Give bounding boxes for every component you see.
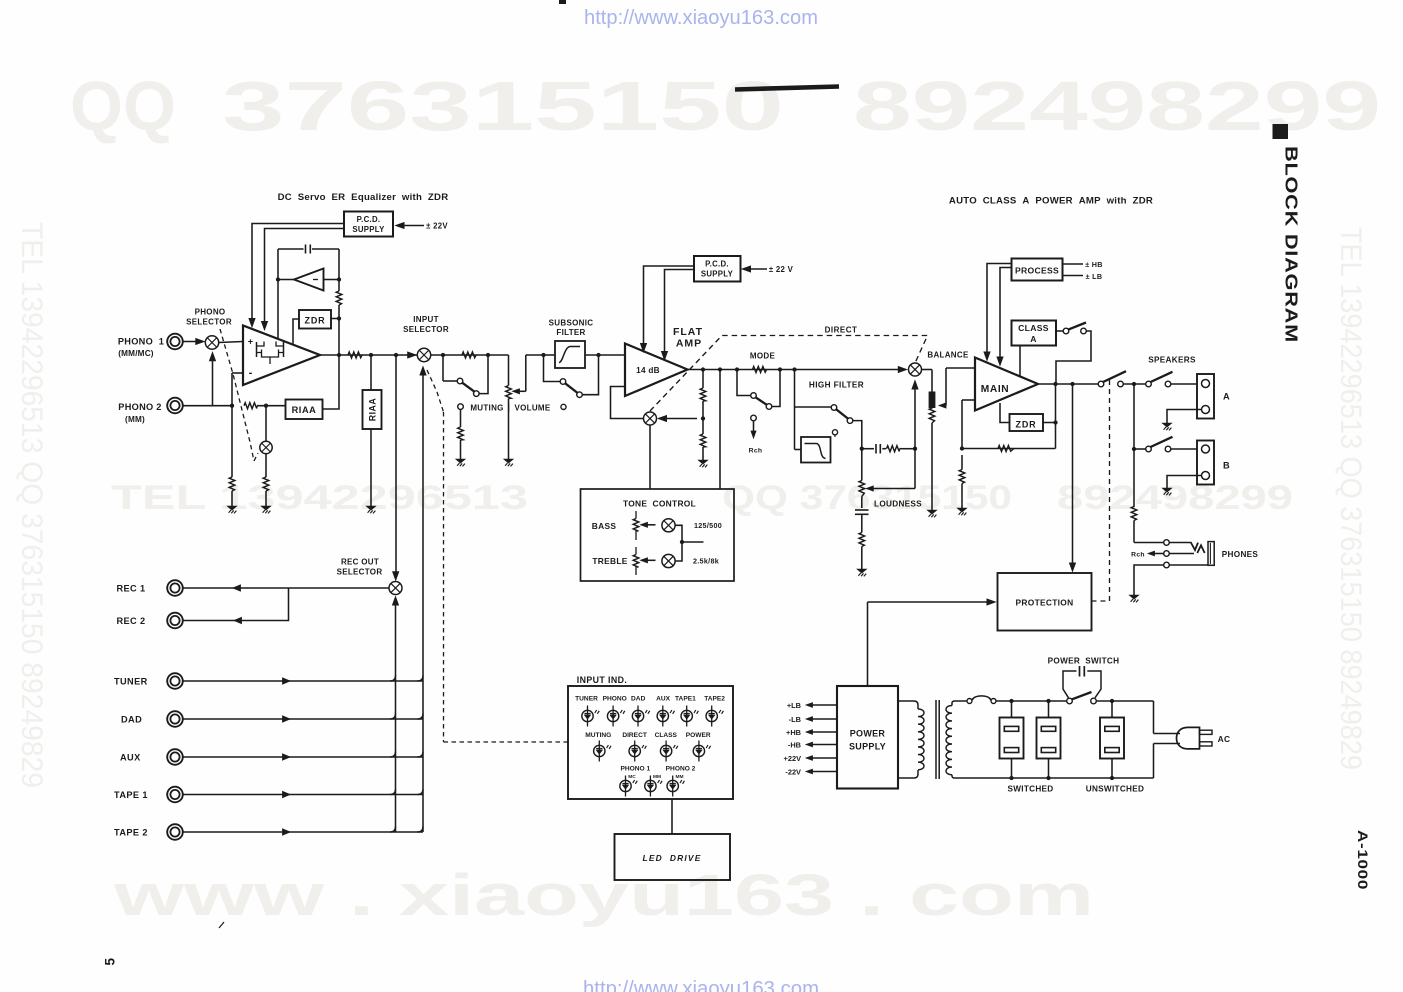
wire input selector output with resistor	[431, 352, 509, 358]
svg-text:SUPPLY: SUPPLY	[701, 270, 734, 279]
selector switch MC/MM gain	[260, 406, 272, 506]
svg-text:PHONO 2: PHONO 2	[118, 402, 161, 412]
wire phono2 to selector	[182, 352, 215, 405]
AC cord	[1154, 734, 1181, 744]
label MUTING / VOLUME	[470, 403, 551, 413]
svg-text:+22V: +22V	[784, 754, 802, 763]
selector switch treble	[662, 554, 675, 567]
svg-text:REC OUT: REC OUT	[341, 558, 379, 567]
svg-text:CLASS: CLASS	[655, 732, 678, 739]
PROTECTION box	[998, 573, 1092, 631]
svg-text:SUBSONIC: SUBSONIC	[549, 319, 594, 328]
ZDR box 2	[1010, 414, 1044, 431]
dashed link phono selector to MC/MM switch	[220, 329, 258, 461]
capacitor and resistor to balance bus	[862, 444, 917, 454]
op-amp U3 FLAT AMP 14dB	[625, 344, 688, 397]
svg-text:MM: MM	[676, 774, 684, 780]
LED row 1	[582, 706, 724, 727]
svg-text:(MM/MC): (MM/MC)	[118, 349, 154, 358]
wire TAPE 1 to buses	[182, 789, 423, 798]
dashed input selector to input indicator	[427, 370, 568, 742]
selector switch tone defeat	[644, 412, 698, 425]
resistor R to ground left	[229, 406, 235, 506]
svg-text:TEL 13942296513: TEL 13942296513	[111, 479, 528, 517]
svg-text:TAPE1: TAPE1	[675, 696, 696, 703]
svg-text:PHONES: PHONES	[1222, 550, 1259, 559]
svg-text:TAPE 2: TAPE 2	[114, 828, 148, 838]
svg-text:HIGH FILTER: HIGH FILTER	[809, 381, 864, 390]
mode Rch contact	[749, 415, 763, 454]
svg-text:FLAT: FLAT	[673, 326, 703, 338]
RIAA box vertical	[363, 390, 382, 429]
svg-text:DAD: DAD	[121, 715, 142, 725]
svg-text:AMP: AMP	[676, 338, 702, 350]
wire flat amp output to balance	[688, 366, 907, 372]
LED row 2	[594, 741, 711, 762]
tick mark	[219, 922, 224, 928]
wire RIAA vertical to ground	[370, 429, 372, 506]
svg-text:-: -	[249, 367, 253, 379]
wire TAPE 2 to buses	[182, 827, 423, 836]
svg-text:(MM): (MM)	[125, 415, 145, 424]
wire servo loop right with resistor	[324, 249, 342, 355]
svg-text:DC Servo ER Equalizer with: DC Servo ER Equalizer with ZDR	[278, 192, 449, 203]
svg-text:SUPPLY: SUPPLY	[849, 742, 886, 752]
wire output to RIAA vertical	[370, 355, 372, 390]
svg-text:MUTING: MUTING	[470, 404, 503, 413]
muting contact and resistor to ground	[458, 404, 464, 459]
RIAA box feedback	[286, 400, 323, 420]
jack REC 1	[116, 580, 182, 596]
svg-text:AUTO CLASS A POWER AMP wi: AUTO CLASS A POWER AMP with ZDR	[949, 196, 1153, 207]
svg-text:POWER: POWER	[686, 732, 711, 739]
svg-text:A: A	[1030, 334, 1037, 344]
resistor phones feed	[1131, 384, 1164, 543]
label Rch arrow	[1131, 551, 1164, 558]
svg-text:AC: AC	[1218, 734, 1231, 744]
ground	[1129, 595, 1138, 599]
+-22V feed to PCD supply 2	[742, 265, 794, 274]
contact circle right of volume	[561, 404, 566, 409]
page scan marks	[735, 87, 839, 90]
fuse F1	[967, 696, 996, 704]
svg-text:INPUT IND.: INPUT IND.	[577, 675, 627, 685]
svg-text:PHONO 1: PHONO 1	[620, 766, 650, 773]
svg-text:PHONO 2: PHONO 2	[666, 766, 696, 773]
svg-text:SELECTOR: SELECTOR	[403, 325, 449, 334]
ground	[456, 459, 465, 463]
ground	[698, 460, 707, 464]
svg-text:892498299: 892498299	[853, 67, 1381, 145]
svg-text:http://www.xiaoyu163.com: http://www.xiaoyu163.com	[583, 977, 819, 992]
speaker terminal block A	[1197, 374, 1230, 419]
jack AUX	[120, 749, 183, 765]
jack TAPE 1	[114, 787, 183, 803]
input bus to input selector	[420, 367, 426, 833]
svg-text:VOLUME: VOLUME	[514, 404, 550, 413]
speaker terminal block B	[1197, 441, 1230, 485]
svg-text:POWER: POWER	[850, 729, 886, 739]
LED row 3	[620, 776, 685, 797]
svg-text:892498299: 892498299	[1057, 479, 1293, 517]
wire phono1 to selector	[182, 338, 204, 344]
wire CLASS A to main amp	[1019, 346, 1021, 377]
svg-text:AUX: AUX	[120, 753, 141, 763]
POWER SUPPLY box	[837, 686, 898, 789]
op-amp U1 phono equalizer	[243, 326, 320, 386]
AC outlet unswitched	[1100, 718, 1124, 759]
svg-text:-22V: -22V	[785, 767, 801, 776]
INPUT IND box	[568, 686, 733, 799]
wire AC line after switch	[1096, 699, 1153, 734]
svg-text:BALANCE: BALANCE	[927, 351, 969, 360]
AC plug	[1177, 727, 1231, 749]
wire ZDR2 to feedback column	[1043, 420, 1058, 424]
svg-text:MUTING: MUTING	[585, 732, 611, 739]
potentiometer BASS	[633, 511, 655, 540]
svg-text:SUPPLY: SUPPLY	[352, 225, 385, 234]
svg-text:+HB: +HB	[786, 728, 801, 737]
ground	[857, 569, 866, 573]
svg-text:-LB: -LB	[789, 715, 801, 724]
ground	[927, 510, 936, 514]
jack TAPE 2	[114, 824, 183, 840]
wire PROCESS to main amp power pins	[984, 264, 1012, 366]
labels SWITCHED UNSWITCHED	[1007, 785, 1144, 794]
indicator row 3 labels	[620, 766, 695, 781]
svg-text:± HB: ± HB	[1085, 260, 1103, 269]
wire feedback network phono2	[213, 373, 286, 409]
svg-text:UNSWITCHED: UNSWITCHED	[1086, 785, 1145, 794]
svg-text:± 22 V: ± 22 V	[769, 265, 794, 274]
jack PHONO 1 (MM/MC)	[118, 334, 183, 358]
switch speakers B	[1132, 437, 1197, 452]
svg-text:REC 1: REC 1	[116, 584, 145, 594]
selector switch REC OUT	[389, 582, 402, 595]
wire AC primary top	[996, 699, 1067, 703]
wire op-amp U1 output to input selector	[320, 352, 417, 358]
HIGH FILTER box	[801, 430, 838, 463]
+-22V feed to PCD supply 1	[396, 222, 449, 231]
svg-text:SWITCHED: SWITCHED	[1007, 785, 1053, 794]
svg-text:A: A	[1223, 392, 1230, 402]
svg-text:14 dB: 14 dB	[636, 366, 660, 375]
rec out selector label	[337, 558, 383, 577]
svg-text:BASS: BASS	[592, 521, 617, 531]
jack REC 2	[116, 613, 182, 629]
P.C.D. SUPPLY box 1	[344, 212, 393, 237]
wire to high filter box	[795, 370, 802, 450]
ground	[504, 459, 513, 463]
subsonic filter label	[549, 319, 594, 338]
ground	[366, 506, 375, 510]
wire speaker B return to ground	[1167, 476, 1202, 489]
svg-text:PHONO: PHONO	[603, 696, 627, 703]
phone jack symbol	[1169, 542, 1214, 566]
svg-text:TAPE2: TAPE2	[704, 696, 725, 703]
capacitor C servo	[278, 245, 339, 254]
indicator row 1 labels	[575, 696, 725, 703]
svg-text:Rch: Rch	[1131, 552, 1145, 559]
wire rec bus up into selector	[392, 597, 398, 833]
wire DAD to buses	[182, 714, 423, 723]
dashed DIRECT path	[650, 326, 928, 412]
svg-text:+LB: +LB	[787, 701, 801, 710]
power supply output labels	[784, 701, 837, 777]
wire TUNER to buses	[182, 676, 423, 685]
selector switch PHONO SELECTOR	[205, 336, 218, 349]
wire ZDR2 to main amp	[1000, 403, 1010, 423]
wire power supply to protection	[868, 599, 996, 686]
wire flat amp feedback	[611, 387, 644, 419]
wire selector to op-amp + input	[219, 342, 243, 343]
switch MUTING	[443, 355, 488, 396]
node flat amp gain divider	[700, 370, 706, 461]
svg-text:ZDR: ZDR	[305, 316, 326, 326]
svg-text:SELECTOR: SELECTOR	[337, 568, 383, 577]
svg-text:± LB: ± LB	[1086, 272, 1103, 281]
switch POWER with capacitor	[1063, 666, 1101, 704]
switch high filter	[795, 405, 862, 443]
indicator row 2 labels	[585, 732, 711, 739]
PROCESS box	[1012, 259, 1063, 281]
svg-text:TEL 13942296513 QQ 376315150 8: TEL 13942296513 QQ 376315150 89249829	[1334, 227, 1367, 770]
outlet stubs and bottom bus	[1009, 701, 1153, 780]
svg-text:P.C.D.: P.C.D.	[705, 260, 729, 269]
potentiometer VOLUME	[506, 355, 544, 459]
switch subsonic bypass	[541, 353, 598, 398]
potentiometer TREBLE	[633, 547, 655, 575]
svg-text:QQ: QQ	[70, 67, 176, 145]
svg-text:QQ 376315150: QQ 376315150	[722, 479, 1012, 517]
op-amp U2 DC servo inverter	[294, 269, 324, 291]
capacitor loudness	[855, 510, 869, 569]
FET pair inside op-amp U1	[257, 342, 284, 365]
svg-text:MODE: MODE	[750, 352, 776, 361]
wire servo loop left	[276, 249, 294, 339]
HB LB feeds	[1063, 260, 1103, 281]
jack TUNER	[114, 673, 183, 689]
wire AUX to buses	[182, 752, 423, 761]
selector switch BALANCE	[909, 363, 922, 376]
svg-text:2.5k/8k: 2.5k/8k	[693, 557, 719, 566]
op-amp U4 MAIN power amp	[975, 358, 1038, 411]
svg-text:SELECTOR: SELECTOR	[186, 318, 232, 327]
svg-text:TUNER: TUNER	[575, 696, 598, 703]
svg-text:RIAA: RIAA	[368, 398, 378, 422]
jack PHONO 2 (MM)	[118, 398, 183, 424]
svg-text:http://www.xiaoyu163.com: http://www.xiaoyu163.com	[584, 6, 818, 29]
svg-text:PHONO: PHONO	[195, 308, 226, 317]
svg-text:5: 5	[103, 958, 118, 966]
svg-text:DIRECT: DIRECT	[622, 732, 647, 739]
wire PCD supply 1 to op-amp U1 power pins	[249, 224, 344, 331]
wire RIAA feedback to output node	[323, 355, 340, 409]
SUBSONIC FILTER box	[555, 341, 585, 368]
svg-text:LOUDNESS: LOUDNESS	[874, 500, 922, 509]
svg-text:MC: MC	[628, 774, 636, 780]
wire output node down to rec out selector	[393, 355, 399, 580]
ground	[227, 506, 236, 510]
svg-text:Rch: Rch	[749, 448, 763, 455]
switch speakers A	[1146, 372, 1197, 387]
svg-text:CLASS: CLASS	[1018, 323, 1049, 333]
ground	[957, 508, 966, 512]
svg-text:TREBLE: TREBLE	[592, 556, 627, 566]
svg-text:FILTER: FILTER	[556, 328, 585, 337]
transformer T1	[898, 700, 1012, 779]
wire volume wiper to filter	[544, 354, 556, 356]
input selector label	[403, 315, 449, 334]
svg-text:TAPE 1: TAPE 1	[114, 790, 148, 800]
node loudness junction	[860, 447, 864, 451]
svg-text:BLOCK DIAGRAM: BLOCK DIAGRAM	[1282, 146, 1302, 343]
svg-text:REC 2: REC 2	[116, 616, 145, 626]
AC outlets switched	[1000, 718, 1024, 759]
ZDR box 1	[299, 310, 331, 329]
wire main output bus	[1038, 371, 1146, 387]
wire speaker A return to ground	[1167, 410, 1202, 424]
svg-text:AUX: AUX	[656, 696, 671, 703]
svg-text:MM: MM	[653, 774, 661, 780]
sidebar title BLOCK DIAGRAM	[1273, 124, 1302, 343]
P.C.D. SUPPLY box 2	[694, 256, 741, 282]
svg-text:TUNER: TUNER	[114, 677, 148, 687]
switch MODE	[737, 370, 780, 410]
ground	[261, 506, 270, 510]
jack DAD	[121, 711, 183, 727]
svg-text:PHONO 1: PHONO 1	[118, 337, 164, 347]
svg-text:B: B	[1223, 461, 1230, 471]
wire phones sleeve to ground	[1134, 565, 1164, 595]
wire filter output to flat amp	[585, 353, 625, 357]
svg-text:ZDR: ZDR	[1016, 419, 1037, 429]
wire main feedback network	[959, 384, 1055, 508]
wire ZDR1 to feedback column	[331, 318, 339, 320]
svg-text:PROCESS: PROCESS	[1015, 265, 1059, 275]
phones contacts	[1164, 540, 1170, 568]
LED DRIVE box	[615, 834, 731, 880]
label FLAT AMP	[673, 326, 703, 350]
svg-text:P.C.D.: P.C.D.	[357, 215, 381, 224]
svg-text:+: +	[248, 337, 254, 347]
svg-text:SPEAKERS: SPEAKERS	[1148, 356, 1196, 365]
wire bass to treble junction	[675, 525, 703, 561]
svg-text:DIRECT: DIRECT	[825, 326, 858, 335]
switch class A select	[1056, 323, 1091, 385]
svg-text:A-1000: A-1000	[1355, 830, 1370, 890]
TONE CONTROL box	[581, 489, 735, 581]
wire output node to tone control box	[719, 370, 721, 490]
svg-text:RIAA: RIAA	[292, 405, 317, 415]
svg-text:TEL 13942296513 QQ 376315150 8: TEL 13942296513 QQ 376315150 89249829	[15, 222, 48, 788]
svg-text:-HB: -HB	[788, 740, 801, 749]
svg-text:LED DRIVE: LED DRIVE	[643, 853, 702, 863]
dashed protection to speaker relay	[1092, 378, 1110, 601]
selector switch bass	[662, 519, 675, 532]
svg-text:POWER SWITCH: POWER SWITCH	[1048, 657, 1120, 666]
wire PCD supply 2 to flat amp power pins	[640, 266, 694, 360]
svg-text:DAD: DAD	[631, 696, 646, 703]
ground	[1162, 488, 1171, 492]
selector switch INPUT SELECTOR	[417, 348, 430, 361]
wire tone circle to tone control box	[649, 425, 651, 489]
wire selector to REC 1 jack	[182, 585, 389, 591]
wire main output to protection	[1069, 384, 1075, 572]
svg-text:MAIN: MAIN	[981, 384, 1009, 395]
svg-text:TONE CONTROL: TONE CONTROL	[623, 499, 696, 509]
svg-text:www . xiaoyu163 . com: www . xiaoyu163 . com	[112, 863, 1094, 928]
CLASS A box	[1012, 321, 1057, 346]
svg-text:376315150: 376315150	[222, 67, 784, 145]
wire ZDR1 to op-amp	[293, 319, 299, 344]
svg-text:INPUT: INPUT	[413, 315, 439, 324]
phono selector label	[186, 308, 232, 327]
potentiometer balance fader	[922, 368, 976, 510]
wire input ind to led drive	[671, 799, 673, 834]
svg-text:125/500: 125/500	[694, 521, 722, 530]
potentiometer LOUDNESS	[859, 381, 918, 509]
svg-text:± 22V: ± 22V	[426, 222, 448, 231]
wire branch to REC 2 jack	[182, 588, 288, 624]
ground	[1162, 423, 1171, 427]
svg-text:PROTECTION: PROTECTION	[1016, 598, 1074, 608]
